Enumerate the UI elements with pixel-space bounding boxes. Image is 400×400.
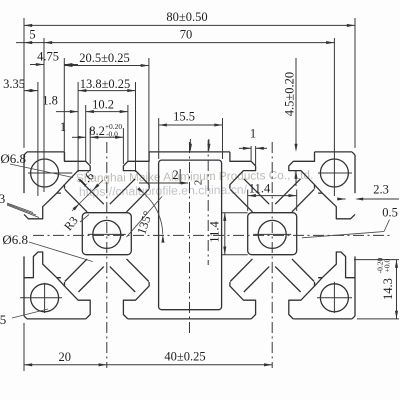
dimension 14.3 +0.0 -0.20 [354, 259, 399, 261]
vertical centre line cell1 [106, 142, 108, 368]
top edge middle segment [149, 151, 230, 153]
vertical centre line cell2 [271, 142, 273, 368]
svg-text:8.2: 8.2 [89, 124, 105, 138]
svg-text:2.3: 2.3 [373, 182, 389, 196]
svg-text:2: 2 [193, 180, 205, 186]
bottom slot cell1 right half [123, 282, 149, 319]
svg-text:3.35: 3.35 [3, 77, 25, 91]
horizontal centre line [33, 234, 393, 236]
web cell1 bottom-left [65, 259, 87, 282]
left end slot lower half [24, 193, 61, 219]
arrow onto top surface 2 [207, 144, 210, 152]
dimension 1 (slot step right) [250, 146, 252, 161]
label Ø6.8 top-left corner hole [10, 164, 73, 178]
dimension 2 (chamber top wall) [139, 182, 188, 184]
corner hole top-left horizontal centre mark [28, 172, 72, 174]
top slot cell1 left half [65, 152, 91, 189]
right edge upper [354, 155, 356, 193]
boss cavity cell1 [82, 213, 131, 255]
corner hole bottom-right Ø6.8 [320, 284, 348, 312]
centre bore cell1 horizontal centre mark [88, 233, 126, 235]
label 1.6 web thickness with dim line [72, 180, 103, 211]
top slot cell1 right half [123, 152, 149, 189]
bottom-right corner chamfer [352, 316, 355, 319]
dimension 11.4 horizontal [247, 190, 249, 212]
svg-text:10.2: 10.2 [92, 98, 114, 112]
web cell1 top-right [127, 189, 149, 212]
dimension 4.75 [63, 58, 65, 161]
corner hole bottom-left Ø6.8 [31, 284, 59, 312]
label 3 with leader fan [7, 203, 33, 213]
dimension 40±0.25 (bottom) [107, 364, 272, 366]
bottom-left corner chamfer [24, 316, 27, 319]
corner hole bottom-left horizontal centre mark [20, 297, 62, 299]
bottom edge left segment [27, 318, 86, 320]
extension line near 2 dim [179, 169, 181, 184]
web cell2 bottom-right [292, 259, 314, 282]
svg-text:14.3: 14.3 [381, 278, 395, 300]
label Ø6.8 centre bore [29, 242, 93, 262]
svg-text:15.5: 15.5 [173, 109, 195, 123]
left edge upper [23, 155, 25, 193]
right edge lower [354, 256, 356, 316]
svg-text:-0.0: -0.0 [106, 130, 118, 139]
svg-text:20.5±0.25: 20.5±0.25 [79, 51, 130, 65]
svg-text:Ø6.8: Ø6.8 [2, 232, 28, 247]
svg-text:20: 20 [58, 350, 71, 364]
middle chamber cavity [159, 160, 222, 310]
corner hole top-right horizontal centre mark [318, 172, 352, 174]
corner hole top-right Ø6.8 [320, 159, 348, 187]
svg-text:70: 70 [180, 28, 193, 42]
svg-text:4.5±0.20: 4.5±0.20 [283, 72, 297, 116]
svg-text:1.8: 1.8 [42, 94, 58, 108]
right end slot upper half [318, 252, 355, 278]
svg-text:5: 5 [29, 28, 35, 42]
dimension 2.3 [357, 198, 399, 200]
svg-text:4.75: 4.75 [37, 50, 59, 64]
web cell2 top-right [292, 189, 314, 212]
top slot cell2 right half [289, 152, 315, 189]
dimension 70 [43, 38, 45, 192]
top slot cell2 left half [230, 152, 256, 189]
dimension 15.5 [158, 118, 160, 159]
dimension 4.5±0.20 [295, 58, 297, 150]
bottom edge middle segment [128, 318, 251, 320]
dimension 1 (slot step left) [72, 136, 86, 138]
web cell1 top-left [65, 189, 87, 212]
svg-text:Ø6.8: Ø6.8 [0, 151, 26, 166]
svg-text:11.4: 11.4 [249, 182, 271, 196]
arrow onto top surface [189, 144, 192, 152]
svg-text:5: 5 [0, 312, 6, 327]
svg-text:1: 1 [250, 127, 256, 141]
web cell1 bottom-right [127, 259, 149, 282]
dimension 5 [16, 42, 44, 44]
centre bore cell2 Ø6.8 [258, 220, 286, 248]
short centre line x=208 [207, 140, 209, 265]
svg-text:13.8±0.25: 13.8±0.25 [80, 77, 131, 91]
label 5 bottom-left [12, 309, 48, 318]
web cell2 bottom-left [230, 259, 252, 282]
corner hole bottom-right vertical centre mark [333, 282, 335, 313]
dimension 13.8±0.25 [77, 82, 79, 172]
corner wrap line bottom-left [57, 278, 65, 286]
svg-text:-0.20: -0.20 [376, 257, 385, 273]
svg-text:https://cnaluprofile.en.china.: https://cnaluprofile.en.china.cn/ [79, 183, 248, 199]
dimension 20 (bottom) [23, 323, 25, 371]
dimension 10.2 [85, 105, 87, 162]
corner wrap line bottom-right [315, 278, 323, 286]
corner hole top-left Ø6.8 [31, 159, 59, 187]
svg-text:3: 3 [0, 191, 5, 206]
dimension 80±0.50 [23, 18, 25, 148]
left end slot upper half [24, 252, 61, 278]
web cell2 top-left [230, 189, 252, 212]
centre bore cell1 Ø6.8 [93, 220, 121, 248]
svg-text:40±0.25: 40±0.25 [164, 350, 205, 364]
label R3 [80, 215, 89, 223]
bottom slot cell1 left half [65, 282, 91, 319]
top-right corner chamfer [352, 152, 355, 155]
dimension 11.4 vertical [222, 212, 248, 214]
svg-text:0.5: 0.5 [382, 206, 398, 220]
vertical centre line middle [189, 142, 191, 336]
bottom slot cell2 right half [289, 282, 315, 319]
dimension 1.8 [56, 111, 78, 113]
corner wrap line top-left [57, 185, 65, 193]
bottom edge right segment [293, 318, 352, 320]
top edge right segment [315, 151, 353, 153]
left edge lower [23, 256, 25, 316]
bottom slot cell2 left half [230, 282, 256, 319]
corner hole bottom-left vertical centre mark [44, 283, 46, 313]
corner hole bottom-right horizontal centre mark [317, 297, 352, 299]
svg-text:2: 2 [172, 168, 178, 182]
top-left corner chamfer [24, 152, 27, 155]
label 135° with arc [144, 194, 163, 235]
dimension 8.2 +0.20 -0.0 [89, 128, 91, 164]
boss cavity cell2 [248, 213, 297, 255]
svg-text:80±0.50: 80±0.50 [166, 10, 207, 24]
right end slot lower half [318, 193, 355, 219]
corner wrap line top-right [315, 185, 323, 193]
top edge left segment [27, 151, 65, 153]
dimension 20.5±0.25 [148, 58, 150, 184]
centre bore cell2 horizontal centre mark [253, 233, 291, 235]
svg-text:11.4: 11.4 [208, 221, 222, 243]
135° dimension leg along web [127, 197, 163, 238]
svg-text:1: 1 [60, 120, 66, 134]
dimension 3.35 [37, 82, 39, 196]
dimension 0.5 leader [302, 232, 384, 238]
